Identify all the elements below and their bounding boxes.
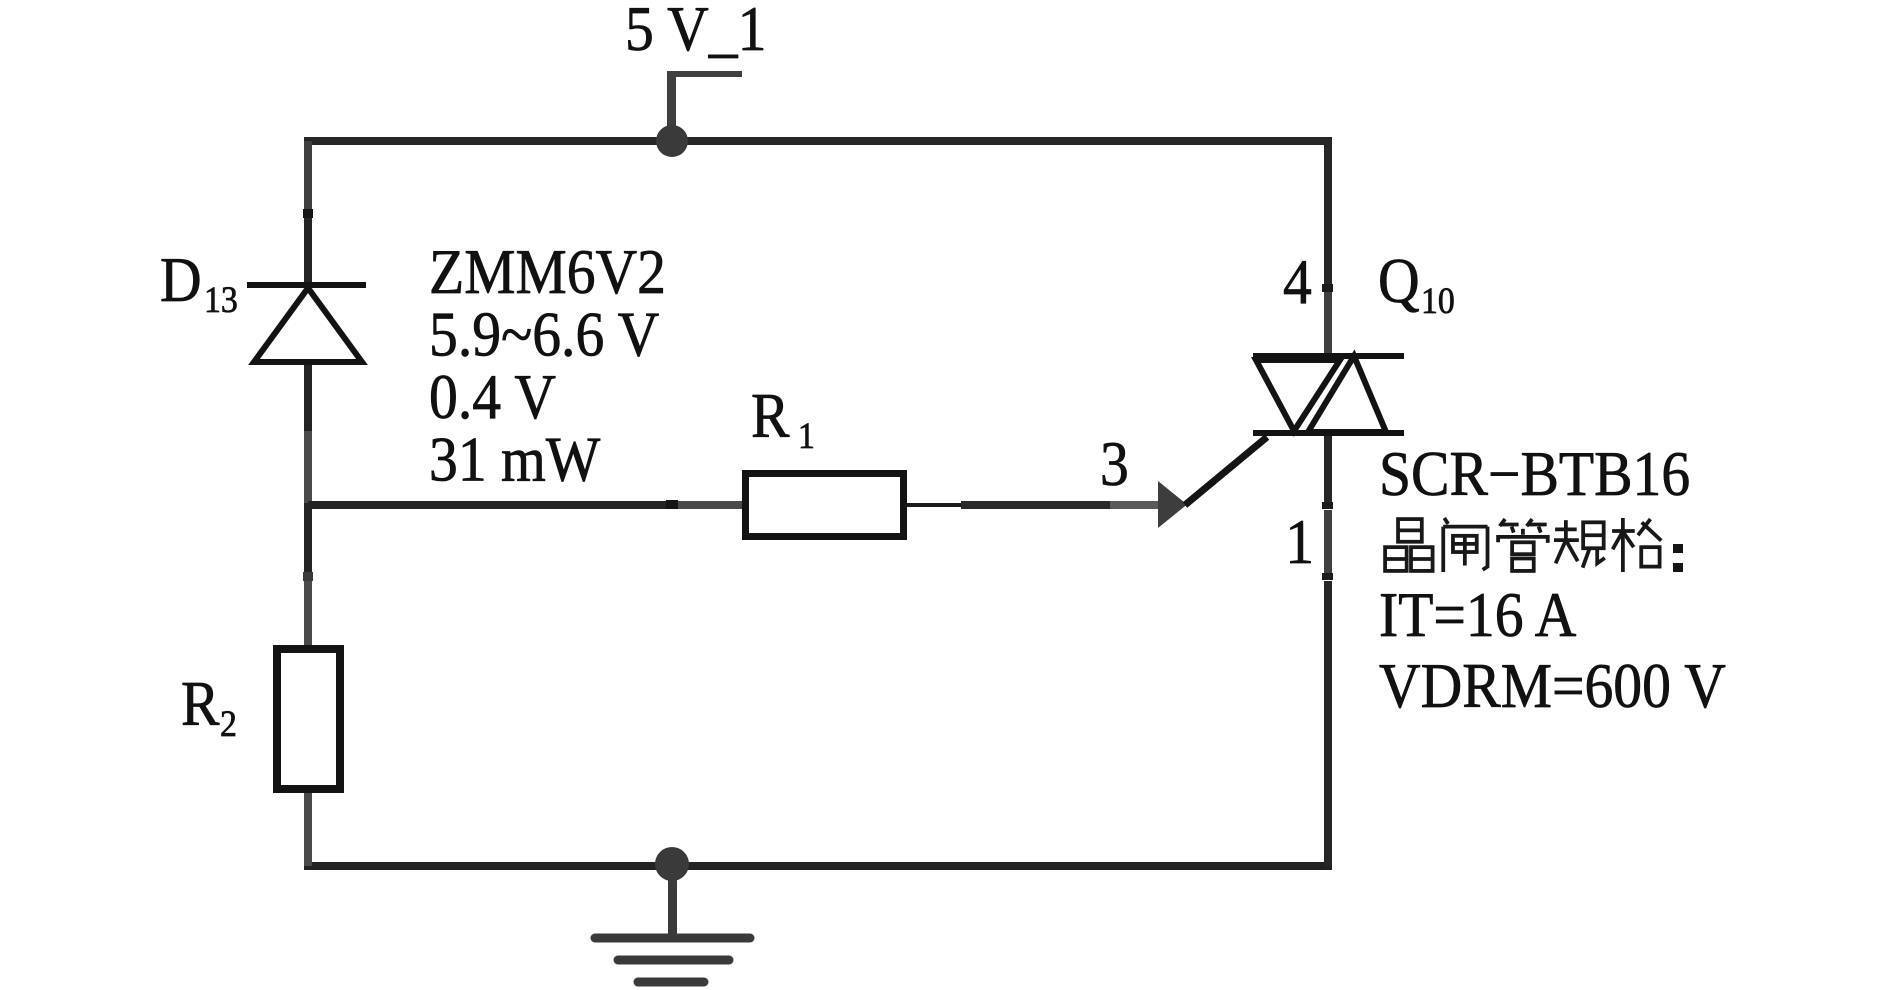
triac Q10 right triangle [1308, 356, 1386, 432]
svg-text:1: 1 [1285, 508, 1314, 578]
pin tick right wire upper [1322, 502, 1333, 509]
wire R1 right pin thin [907, 503, 961, 507]
glyph guan 管 [1498, 519, 1548, 571]
wire left vertical to R2 top [304, 577, 312, 645]
wire left vertical grey segment [304, 431, 312, 503]
glyph ge 格 [1612, 518, 1661, 572]
wire left vertical upper segment [304, 141, 312, 213]
wire right vertical upper [1324, 141, 1332, 284]
svg-text:VDRM=600 V: VDRM=600 V [1379, 652, 1726, 722]
node junction dot bottom [655, 847, 689, 881]
wire left vertical R2 bottom to rail [304, 793, 312, 866]
svg-text:10: 10 [1421, 280, 1455, 322]
glyph gui 规 [1554, 520, 1605, 568]
power flag 5V_1 [667, 71, 742, 141]
svg-text:IT=16 A: IT=16 A [1379, 581, 1577, 651]
svg-text:Q: Q [1378, 247, 1420, 317]
wire bottom rail [304, 862, 1332, 870]
wire left vertical zener anode to mid [304, 362, 312, 431]
gate wire diagonal [1185, 437, 1267, 505]
left wire lower tick [303, 572, 313, 581]
svg-text:D: D [160, 246, 202, 316]
svg-text:SCR−BTB16: SCR−BTB16 [1379, 440, 1690, 510]
svg-text:0.4 V: 0.4 V [429, 363, 556, 433]
wire mid horizontal left of R1 [308, 501, 670, 509]
resistor R1 body [746, 474, 904, 537]
resistor R2 body [277, 649, 340, 789]
svg-text:5 V_1: 5 V_1 [625, 0, 766, 65]
triac Q10 top bar [1253, 353, 1404, 359]
wire left vertical mid to tick [304, 503, 312, 577]
left wire tick [303, 209, 313, 218]
svg-text:R: R [751, 382, 790, 452]
pin 1 tick [1322, 573, 1333, 580]
CJK label 晶闸管规格: drawn as strokes [1385, 518, 1661, 572]
wire mid grey to R1 [678, 501, 742, 509]
wire right vertical grey segment [1324, 510, 1332, 573]
wire left vertical to zener cathode [304, 209, 312, 287]
wire right vertical triac bottom down [1324, 433, 1332, 503]
svg-text:13: 13 [204, 279, 238, 321]
svg-text:ZMM6V2: ZMM6V2 [429, 238, 666, 308]
wire top rail [304, 137, 1332, 145]
svg-text:3: 3 [1100, 430, 1129, 500]
svg-text:1: 1 [798, 415, 815, 457]
svg-text:31 mW: 31 mW [429, 425, 600, 495]
node junction dot top [656, 125, 688, 157]
glyph jing 晶 [1385, 519, 1433, 571]
wire mid dark segment [961, 501, 1110, 509]
svg-text:2: 2 [220, 703, 237, 745]
gate arrow head [1158, 481, 1187, 528]
wire mid grey to arrow [1110, 501, 1158, 509]
svg-text:R: R [181, 670, 220, 740]
ground symbol [595, 864, 750, 982]
wire right vertical lower [1324, 581, 1332, 866]
pin 4 tick [1322, 284, 1333, 292]
svg-text:5.9~6.6 V: 5.9~6.6 V [429, 300, 659, 370]
CJK colon [1673, 544, 1683, 553]
svg-text:4: 4 [1283, 248, 1312, 318]
triac Q10 left triangle [1256, 360, 1340, 431]
zener diode D13 triangle [254, 288, 362, 362]
glyph zha 闸 [1443, 518, 1487, 572]
mid wire tick [666, 500, 678, 509]
zener diode D13 cathode bar [247, 282, 366, 288]
triac Q10 bottom bar [1253, 430, 1404, 436]
wire right vertical to triac top [1324, 292, 1332, 356]
label ZMM6V2 block [429, 238, 666, 495]
